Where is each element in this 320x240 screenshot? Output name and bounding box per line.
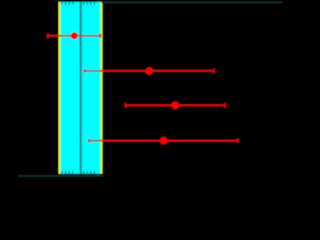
yellow left edge (59, 2, 61, 174)
errorbar 4 (88, 137, 239, 145)
errorbar 1 (47, 32, 101, 39)
teal vertical line (80, 2, 82, 174)
errorbar 2 (84, 67, 215, 75)
bottom spine (18, 175, 103, 176)
top minor ticks (62, 2, 95, 5)
bottom minor ticks (62, 171, 95, 174)
yellow right edge (101, 2, 103, 174)
errorbar 3 (125, 102, 226, 110)
top spine (102, 2, 283, 4)
cyan band (60, 2, 100, 174)
